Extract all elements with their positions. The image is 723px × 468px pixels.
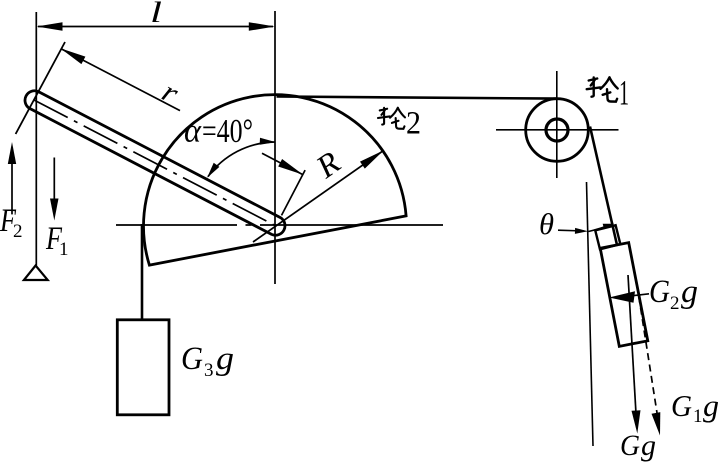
svg-text:G: G	[181, 341, 203, 377]
svg-text:g: g	[641, 429, 656, 462]
svg-text:G: G	[649, 274, 670, 310]
svg-text:l: l	[150, 0, 162, 29]
svg-text:3: 3	[204, 360, 214, 381]
svg-text:g: g	[216, 341, 234, 377]
svg-text:1: 1	[59, 239, 69, 260]
svg-text:α: α	[184, 113, 202, 150]
svg-text:2: 2	[670, 293, 680, 314]
svg-text:1: 1	[693, 406, 703, 427]
svg-text:G: G	[620, 429, 640, 462]
svg-text:θ: θ	[539, 208, 554, 241]
svg-text:g: g	[703, 388, 719, 423]
svg-text:G: G	[671, 388, 692, 423]
svg-text:g: g	[681, 274, 698, 310]
svg-text:=40°: =40°	[202, 113, 253, 150]
svg-text:2: 2	[406, 106, 421, 142]
svg-text:1: 1	[619, 73, 629, 113]
svg-text:2: 2	[13, 221, 23, 242]
